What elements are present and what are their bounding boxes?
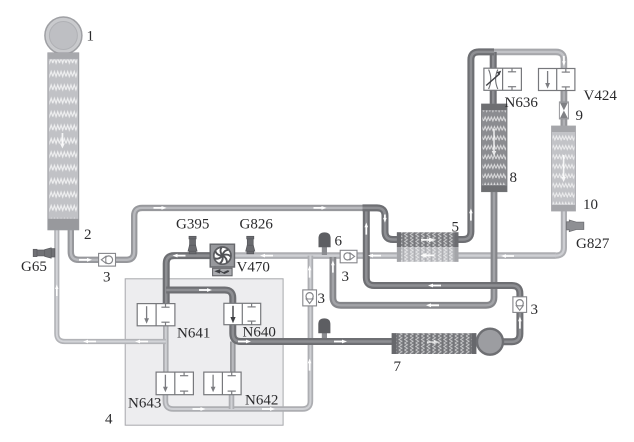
arrow right on dark y=341.5 (west) (238, 340, 251, 344)
svg-text:V470: V470 (237, 260, 270, 276)
arrow left on y=305.3 (426, 303, 439, 307)
arrow down into cooler 5 (383, 215, 387, 223)
column internal down arrow (60, 133, 65, 149)
arrow left on suction left of cooler 5 (368, 254, 381, 258)
bulb 6 (pressure sensor) (319, 232, 331, 247)
arrow right on bottom collector (east) (262, 407, 275, 411)
check valve 3 (left, under column) (99, 253, 116, 266)
svg-text:10: 10 (583, 197, 598, 213)
arrow right on bottom collector (west) (193, 407, 206, 411)
wire: left line from N641 tee to column bottom (with G65 drop) (57, 230, 166, 342)
arrow up on cooler 5 outlet riser (469, 209, 473, 221)
HX 8 (chiller, dark) (482, 104, 508, 192)
wire: column bottom through check valve 3 up to long line y=208 to junction (71, 208, 363, 260)
wire: HX8 outlet down, left along y=305, up to suction (333, 192, 494, 306)
svg-text:7: 7 (394, 359, 402, 375)
arrow up on pump riser (518, 317, 522, 329)
svg-text:N636: N636 (505, 95, 539, 111)
arrow up on collector riser above valve (308, 266, 312, 278)
wire: riser from dark line down to N642 top (230, 342, 236, 373)
svg-text:V424: V424 (584, 88, 618, 104)
svg-text:3: 3 (531, 302, 539, 318)
svg-text:5: 5 (452, 220, 460, 236)
svg-text:G826: G826 (240, 217, 274, 233)
wire: N641 bottom vertical to N643 (163, 326, 169, 372)
arrow up on x=366 riser (364, 223, 368, 235)
svg-text:G827: G827 (576, 236, 610, 252)
wire: compressor discharge left and down into box 4 (166, 256, 222, 304)
svg-text:9: 9 (576, 108, 584, 124)
check valve 3 (suction line) (340, 250, 357, 262)
wire: bottom collector line from N643/N642 up through valve 3 riser to suction (165, 256, 310, 409)
HX 10 (evaporator, light) (552, 126, 576, 211)
motor box of V470 (213, 268, 233, 276)
wire: pump discharge up through valve 3, left along y=285.5, riser up to junction (366, 208, 520, 342)
wire: cooler 5 outlet up and right along top y=52 (459, 52, 495, 240)
arrow right on y=208 line (east) (314, 206, 327, 210)
svg-text:1: 1 (87, 29, 95, 45)
arrow up on collector riser below crossing (308, 359, 312, 371)
box 4 (valve block enclosure) (125, 279, 283, 425)
lower bulb (318, 318, 330, 333)
svg-text:N643: N643 (128, 396, 161, 412)
sensor G395 (188, 236, 197, 254)
svg-text:8: 8 (510, 170, 518, 186)
solenoid valve N643 (156, 372, 193, 395)
wire: bulb 6 stem (322, 246, 327, 256)
svg-text:3: 3 (318, 291, 326, 307)
arrow right before check valve 3 left (79, 258, 92, 262)
arrow left on suction at compressor discharge side (173, 254, 186, 258)
wire: top-right branch through V424 / orifice 9 / HX10 (493, 52, 564, 256)
arrow left on left line (east) (135, 340, 148, 344)
shutoff valve V424 (539, 69, 575, 91)
svg-text:3: 3 (103, 270, 111, 286)
arrow up on thin column pipe (55, 285, 58, 297)
check valve 3 (vertical, collector riser) (303, 290, 317, 306)
pump circle after cooler 7 (477, 329, 503, 355)
accumulator circle 1 (45, 17, 82, 54)
cooler 7 (392, 333, 477, 354)
svg-text:N641: N641 (177, 326, 210, 342)
check valve 3 (vertical, pump riser) (513, 297, 527, 313)
arrow left on suction right of HX8 crossing (501, 254, 514, 258)
svg-text:N640: N640 (243, 325, 276, 341)
svg-text:G65: G65 (21, 259, 47, 275)
wire: junction at (366,208) right and down into cooler 5 (363, 208, 399, 240)
svg-text:2: 2 (84, 227, 92, 243)
arrow left on left line (west) (83, 340, 96, 344)
arrow right on tee y=290 (199, 288, 212, 292)
arrow down into V424 branch (562, 56, 566, 66)
sensor G65 (33, 248, 55, 258)
wire: tee at y=290 over to N640 top (166, 290, 233, 303)
arrow right on dark y=341.5 (east) (334, 340, 347, 344)
wire: N640 bottom right along y=341.5 into cooler 7 (233, 325, 392, 342)
wire: N636 feed from top line down to HX8 (490, 52, 497, 105)
cooler 5 flow arrows (421, 237, 435, 242)
svg-text:4: 4 (105, 412, 113, 428)
arrow left on suction right of compressor (260, 254, 273, 258)
sensor G826 (246, 236, 255, 254)
wire: suction line y=255.6 from HX10 corner to compressor (222, 252, 556, 259)
svg-text:6: 6 (335, 234, 343, 250)
wire: lower bulb stem (322, 332, 327, 342)
condenser column 2 (48, 53, 79, 230)
wire: cooler 7 outlet stub behind pump (476, 338, 503, 345)
compressor V470 (210, 244, 234, 276)
wire: N642 bottom stub (229, 395, 235, 409)
svg-text:3: 3 (342, 269, 350, 285)
arrow right on y=208 line (west) (154, 206, 167, 210)
svg-text:G395: G395 (176, 217, 209, 233)
svg-text:N642: N642 (245, 393, 278, 409)
cooler 5 (two-section heat exchanger) (397, 232, 459, 262)
arrow left on dark y=285.5 (428, 284, 441, 288)
solenoid valve N640 (224, 303, 261, 324)
solenoid valve N642 (204, 372, 241, 395)
solenoid valve N641 (137, 304, 175, 326)
sensor G827 (567, 220, 584, 232)
arrow up on x=333 riser (331, 261, 335, 273)
expansion valve N636 (484, 68, 522, 90)
orifice 9 (559, 102, 568, 119)
